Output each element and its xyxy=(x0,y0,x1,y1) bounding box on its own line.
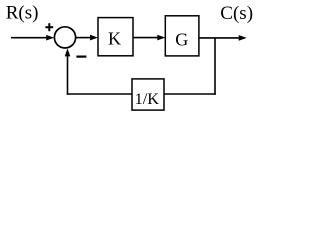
svg-text:K: K xyxy=(108,28,121,48)
block K xyxy=(98,18,133,56)
wire: feedback tap down from output node xyxy=(214,38,216,95)
wire: K to G xyxy=(133,37,159,39)
arrowhead at output xyxy=(239,35,247,41)
wire: feedback right horizontal into 1/K xyxy=(164,93,216,95)
arrowhead into K xyxy=(90,35,98,41)
block G xyxy=(165,16,199,56)
wire: summing junction to block K xyxy=(76,37,91,39)
wire: feedback left horizontal from 1/K xyxy=(67,93,132,95)
plus sign at summing input xyxy=(45,23,53,31)
minus sign at feedback input xyxy=(76,55,86,57)
wire: input R(s) to summing junction xyxy=(11,37,48,39)
svg-text:1/K: 1/K xyxy=(135,89,160,108)
arrowhead into G xyxy=(157,35,165,41)
svg-text:C(s): C(s) xyxy=(220,3,253,24)
svg-text:R(s): R(s) xyxy=(6,3,39,24)
summing junction xyxy=(54,27,75,48)
arrowhead into summing junction xyxy=(46,35,54,41)
svg-text:G: G xyxy=(175,30,188,50)
block 1/K xyxy=(132,79,164,110)
wire: feedback up into summing junction xyxy=(67,56,69,95)
arrowhead into summing junction (from below) xyxy=(65,48,71,56)
wire: G to output C(s) xyxy=(199,37,240,39)
